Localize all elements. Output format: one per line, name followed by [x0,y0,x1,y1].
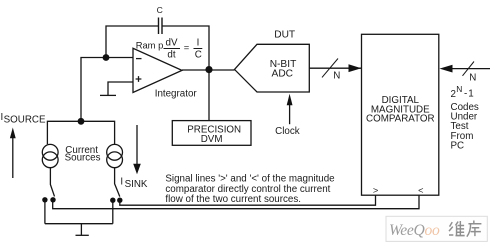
svg-text:ADC: ADC [272,69,294,80]
svg-text:SOURCE: SOURCE [4,115,46,126]
svg-text:<: < [418,186,423,196]
svg-text:1: 1 [468,88,473,99]
svg-text:=: = [184,42,190,53]
svg-text:2: 2 [451,89,456,100]
svg-text:N: N [333,70,340,81]
svg-text:dV: dV [166,38,178,49]
svg-text:Integrator: Integrator [155,89,198,100]
svg-text:COMPARATOR: COMPARATOR [366,114,435,125]
svg-text:N: N [469,73,476,84]
svg-text:C: C [157,5,163,15]
svg-text:N: N [456,84,462,94]
svg-text:DUT: DUT [274,30,295,41]
svg-text:Sources: Sources [65,153,101,164]
svg-text:SINK: SINK [125,179,148,190]
svg-text:WeeQoo: WeeQoo [389,222,440,239]
svg-text:I: I [197,38,200,49]
svg-text:>: > [373,186,378,196]
svg-text:dt: dt [167,50,175,61]
svg-text:C: C [195,50,202,61]
svg-text:flow of the two current source: flow of the two current sources. [165,194,301,205]
svg-text:Ram p: Ram p [136,39,164,50]
svg-text:I: I [120,177,123,188]
svg-text:-: - [464,88,467,99]
svg-text:PC: PC [451,140,465,151]
svg-text:Clock: Clock [275,126,300,137]
svg-text:DVM: DVM [201,134,223,145]
